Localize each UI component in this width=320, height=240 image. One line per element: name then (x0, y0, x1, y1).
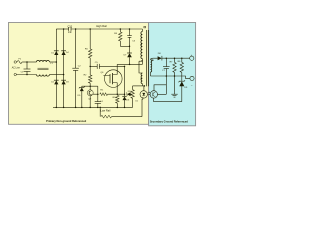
capacitor C5 (97, 64, 99, 69)
transformer T1 primary winding (141, 29, 143, 59)
node C7 top (166, 57, 168, 59)
resistor R4 (119, 29, 122, 46)
wire bottom AC to node (16, 74, 36, 76)
node rail R4 (120, 28, 122, 30)
node rail C2 (75, 28, 77, 30)
wire Q2 base right (93, 93, 98, 95)
label D7 (124, 55, 128, 57)
label High Rail (96, 24, 107, 28)
node gate net right (124, 66, 126, 68)
diode D1 (54, 51, 59, 55)
resistor R1 (100, 93, 108, 96)
wire choke top to bridge (50, 61, 57, 63)
caption secondary (150, 119, 189, 123)
label D10 (128, 91, 133, 93)
label D6 (126, 99, 130, 101)
zener diode D9 (179, 80, 185, 86)
label C1 (21, 72, 25, 74)
transistor Q6 (MOSFET) (103, 70, 122, 88)
label D4 (66, 52, 69, 54)
optocoupler light arrows (148, 92, 150, 95)
wire secondary return (150, 76, 190, 78)
wire gate net down (124, 66, 126, 94)
label R4 (114, 33, 118, 35)
capacitor C1 (24, 62, 31, 75)
label R5 (85, 48, 89, 50)
label L1 (50, 63, 53, 65)
node C1 top (26, 61, 28, 63)
transistor Q2 (87, 90, 93, 96)
resistor R7 (173, 58, 176, 76)
resistor R3 (116, 95, 119, 103)
label D2 (51, 82, 54, 84)
label D8 (158, 53, 162, 55)
wire snubber return (139, 60, 142, 62)
resistor R5 (88, 49, 91, 58)
wire high rail (56, 28, 142, 30)
capacitor C3 (127, 29, 132, 46)
wire R9 drop (99, 107, 101, 116)
label D3 (66, 82, 69, 84)
label C4 (100, 101, 104, 103)
label + (191, 53, 193, 57)
wire Q6 source down (116, 83, 118, 95)
wire choke bottom to bridge (50, 74, 64, 76)
wire aux bottom (141, 84, 143, 86)
wire R5 to node A (89, 58, 91, 66)
wire opto LED bottom (141, 97, 144, 116)
node gate-sense junction (124, 93, 126, 95)
output terminal + (190, 56, 194, 60)
svg-text:Primary Non-ground Referenced: Primary Non-ground Referenced (46, 119, 86, 123)
ground (171, 76, 177, 97)
node R9 top (99, 107, 101, 109)
wire opto transistor bottom (153, 98, 155, 102)
svg-text:−: − (191, 83, 193, 87)
transformer T1 primary phase dot (141, 44, 142, 45)
wire top AC to fuse (15, 61, 18, 63)
label Q6 (100, 72, 104, 74)
diode D7 (127, 46, 132, 57)
svg-text:Low Rail: Low Rail (100, 109, 110, 113)
wire bridge right leg (63, 29, 65, 107)
zener diode D5 (79, 86, 85, 107)
node D7 drain (129, 64, 131, 66)
label U1 (135, 100, 138, 102)
wire bridge left leg (55, 29, 57, 107)
capacitor C4 (95, 102, 101, 108)
wire base feed top (82, 85, 98, 87)
wire fuse to node (22, 61, 36, 63)
label R2 (84, 75, 88, 77)
capacitor C20 (series in rail) (69, 27, 71, 31)
node base feed R2 line (89, 85, 91, 87)
svg-text:AC Line: AC Line (12, 66, 21, 69)
wire D8 to output+ (162, 57, 190, 59)
resistor R2 (89, 66, 91, 75)
wire base net vertical (97, 86, 99, 101)
label F1 (19, 59, 22, 61)
wire opto emitter right (157, 93, 166, 95)
wire node A to C5 (90, 65, 97, 67)
wire source to junction (117, 93, 124, 95)
node bridge left bottom (56, 107, 58, 109)
node R7 bottom (174, 75, 176, 77)
node drain transformer (141, 60, 143, 62)
label D9 (184, 87, 188, 89)
svg-text:High Rail: High Rail (96, 24, 107, 28)
node aux feed opto (144, 85, 146, 87)
wire secondary rail to D8 (153, 57, 157, 59)
node AC left leg (56, 61, 58, 63)
AC input terminal (line) (14, 61, 16, 63)
wire rail to R5 (89, 29, 91, 49)
label C3 (132, 40, 136, 42)
node D6 rail (124, 107, 126, 109)
node R3 rail (117, 107, 119, 109)
resistor R8 (131, 86, 134, 108)
wire R3 to rail (116, 103, 118, 107)
node R7 top (174, 57, 176, 59)
caption primary (46, 119, 86, 123)
node C1 bottom (26, 74, 28, 76)
label Low Rail (100, 109, 110, 113)
diode D3 (61, 80, 66, 84)
label R1 (100, 90, 104, 92)
node C2 bottom (75, 107, 77, 109)
wire LED return (154, 101, 182, 103)
wire opto transistor top (154, 85, 166, 91)
label C2 (78, 65, 82, 67)
label C5 (95, 62, 99, 64)
node rail right leg (63, 28, 65, 30)
node rail R5 (89, 28, 91, 30)
transformer T1 secondary phase dot (152, 60, 153, 61)
wire low rail (53, 106, 133, 108)
node AC right leg (63, 74, 65, 76)
wire drain net (117, 63, 142, 65)
node C4 rail (97, 107, 99, 109)
svg-text:+: + (191, 53, 193, 57)
transformer T1 primary top mark (144, 26, 146, 28)
node C7 bottom (166, 75, 168, 77)
wire secondary bottom (150, 72, 152, 76)
node A (89, 66, 91, 68)
transformer T1 aux winding (141, 73, 142, 84)
wire snubber bottom (120, 45, 129, 47)
label R6 (178, 61, 182, 63)
inductor L1 core (38, 68, 49, 70)
fuse F1 (17, 61, 22, 64)
diode D8 (158, 56, 162, 61)
svg-text:Secondary Ground Referenced: Secondary Ground Referenced (150, 119, 189, 123)
diode D6 (122, 94, 126, 107)
label C20 (68, 25, 73, 28)
wire D9 down (181, 86, 183, 102)
optocoupler U1 transistor side (150, 91, 157, 98)
wire R9 to opto (112, 116, 143, 118)
wire Q2 emitter to rail (89, 96, 91, 108)
wire secondary top (151, 58, 154, 59)
label C7 (162, 70, 166, 72)
svg-text:1nF: 1nF (68, 32, 73, 34)
node rail C3 (129, 28, 131, 30)
label R3 (113, 97, 117, 99)
wire D7 to drain (129, 57, 131, 64)
resistor R9 (101, 115, 112, 118)
AC input terminal (neutral) (14, 73, 16, 75)
resistor R2 zigzag (88, 75, 91, 83)
label Q2 (88, 99, 92, 101)
optocoupler U1 LED side (140, 86, 147, 98)
wire primary bottom to drain (141, 59, 143, 65)
wire C5 to gate net (99, 65, 124, 67)
label D5 (78, 95, 82, 97)
primary-side background box (yellow) (9, 23, 149, 125)
resistor R6 (180, 58, 183, 81)
svg-text:C20: C20 (68, 25, 73, 28)
zener diode D10 (126, 92, 132, 96)
node snubber (129, 46, 131, 48)
node Q2 emitter rail (89, 107, 91, 109)
wire R1 to source node (108, 93, 118, 95)
node R6 top (181, 57, 183, 59)
wire aux top jog (139, 61, 142, 73)
secondary-side background box (cyan) (149, 23, 196, 126)
diode D2 (54, 80, 59, 84)
transformer T1 aux phase dot (141, 78, 142, 79)
label R7 (170, 62, 174, 64)
capacitor C2 (72, 29, 79, 107)
diode D4 (61, 51, 66, 55)
label AC Line (12, 66, 21, 69)
node D5 rail (81, 107, 83, 109)
node base net (97, 93, 99, 95)
node bridge right bottom (63, 107, 65, 109)
wire aux feed (133, 85, 145, 87)
wire opto net vertical (165, 76, 167, 94)
transformer T1 core (147, 30, 149, 86)
node source (117, 93, 119, 95)
wire Q6 drain up (116, 64, 118, 74)
label D1 (51, 52, 54, 54)
transformer T1 secondary winding (151, 60, 152, 72)
output terminal - (190, 76, 194, 80)
inductor L1 top winding (37, 60, 50, 62)
capacitor C7 (163, 58, 170, 76)
label - (191, 83, 193, 87)
wire R2 to Q2 (89, 83, 91, 90)
inductor L1 bottom winding (37, 75, 50, 77)
label C20 value (68, 32, 73, 34)
